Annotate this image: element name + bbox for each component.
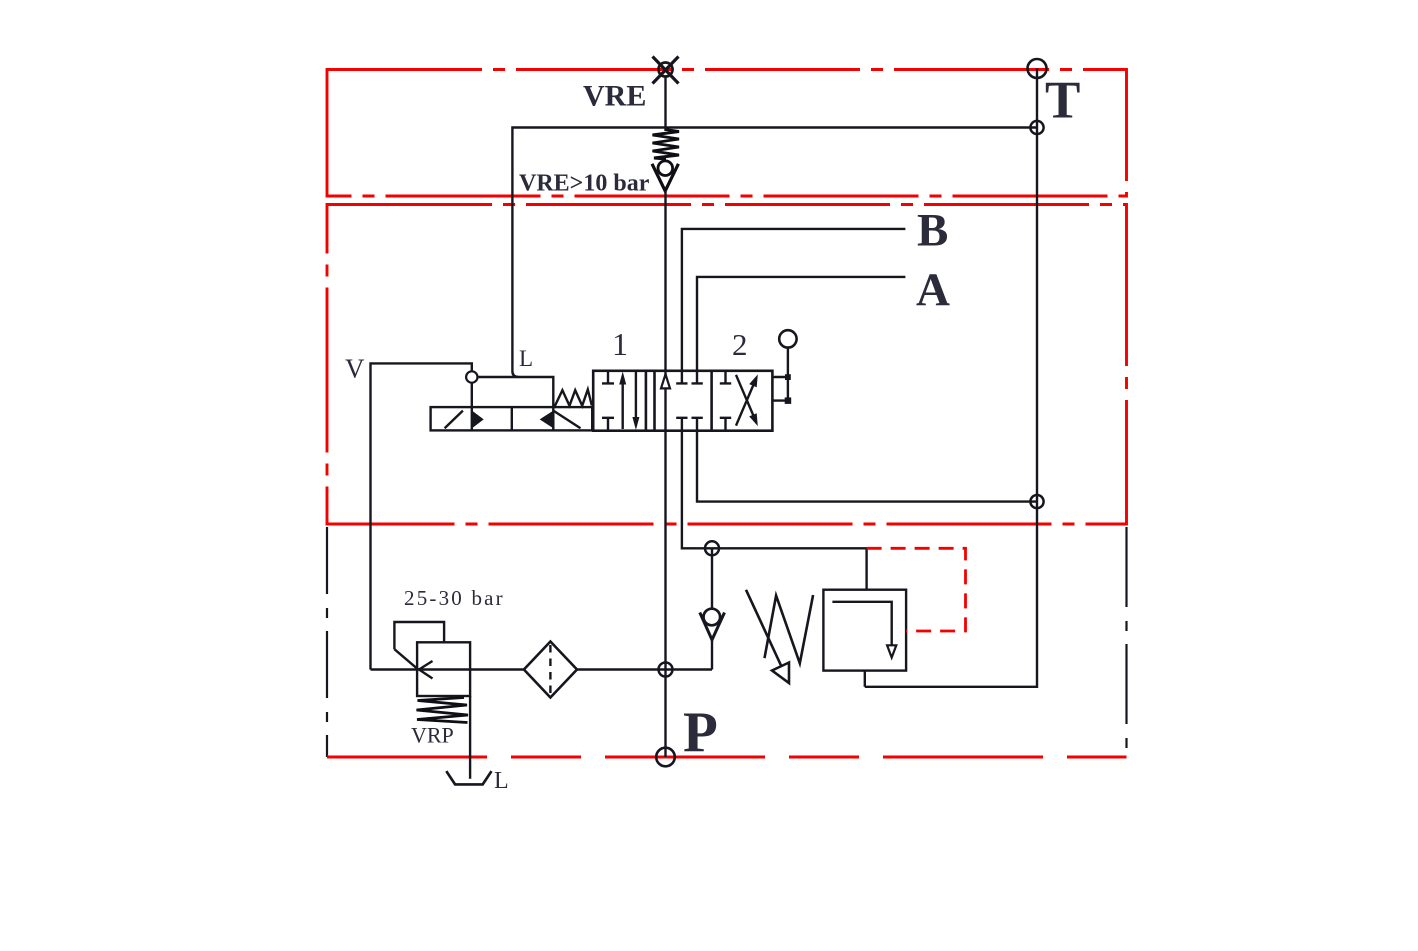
node junction A-to-T (1030, 495, 1043, 508)
enclosure bottom-right border (black dash-dot) (1125, 527, 1127, 757)
wire A (to valve and to T line) (697, 277, 905, 371)
seat of VRE relief valve (652, 164, 678, 191)
svg-text:B: B (917, 205, 948, 257)
wire L drain line (horizontal to T) (512, 128, 1037, 378)
valve position 2 internals (720, 371, 731, 384)
wire V line (left supply) (371, 363, 472, 669)
ball of VRE relief valve (658, 161, 673, 176)
svg-text:2: 2 (732, 327, 748, 362)
svg-text:25-30 bar: 25-30 bar (404, 586, 505, 610)
directional valve main body (593, 371, 772, 431)
spring of pilot actuator (555, 390, 592, 407)
svg-text:P: P (683, 701, 718, 764)
port P (656, 748, 675, 767)
tank symbol L (446, 771, 491, 784)
valve centre position internals (661, 374, 670, 388)
relief valve VRP pilot box (394, 622, 444, 649)
lever actuator (772, 348, 788, 401)
valve position 1 internals (602, 371, 614, 384)
svg-text:V: V (345, 354, 365, 384)
node junction B line / check valve (705, 541, 719, 555)
check valve (anti-return) (711, 548, 713, 609)
wire P supply horizontal (VRP to filter to check valve) (371, 668, 713, 670)
node pilot junction circle (466, 371, 477, 382)
relief valve VRP body (417, 642, 470, 696)
port VRE (crossed circle) (659, 63, 673, 77)
enclosure bottom-left border (black dash-dot) (326, 527, 328, 757)
wire pilot cap line (472, 377, 554, 407)
enclosure bottom edge (red dashed) (327, 756, 1127, 759)
enclosure middle section (red dash-dot frame) (327, 205, 1127, 525)
svg-text:L: L (494, 768, 509, 794)
svg-text:VRE: VRE (583, 80, 646, 113)
pilot actuator row (431, 407, 593, 430)
svg-text:L: L (519, 346, 533, 371)
wire T vertical line (865, 69, 1037, 687)
svg-text:A: A (916, 264, 950, 316)
compensator pilot line (red dashed) (867, 548, 966, 631)
filter (524, 642, 577, 698)
enclosure top section (red dash-dot frame) (327, 70, 1127, 197)
svg-text:T: T (1045, 72, 1080, 130)
wire VRE vertical line (664, 77, 666, 131)
port T (1028, 59, 1047, 78)
pressure compensator U-comp (823, 590, 906, 671)
wire B (to valve and to compensator) (682, 229, 906, 371)
node junction on L/T drain (1030, 121, 1043, 134)
svg-text:VRE>10 bar: VRE>10 bar (519, 171, 650, 197)
wire P/VRE main vertical line (664, 191, 666, 757)
spring of VRP (417, 698, 469, 723)
node junction P line (659, 663, 673, 677)
variable restrictor symbol (765, 595, 814, 663)
svg-text:1: 1 (612, 326, 628, 362)
svg-text:VRP: VRP (411, 723, 454, 748)
spring of VRE relief valve (653, 130, 680, 160)
